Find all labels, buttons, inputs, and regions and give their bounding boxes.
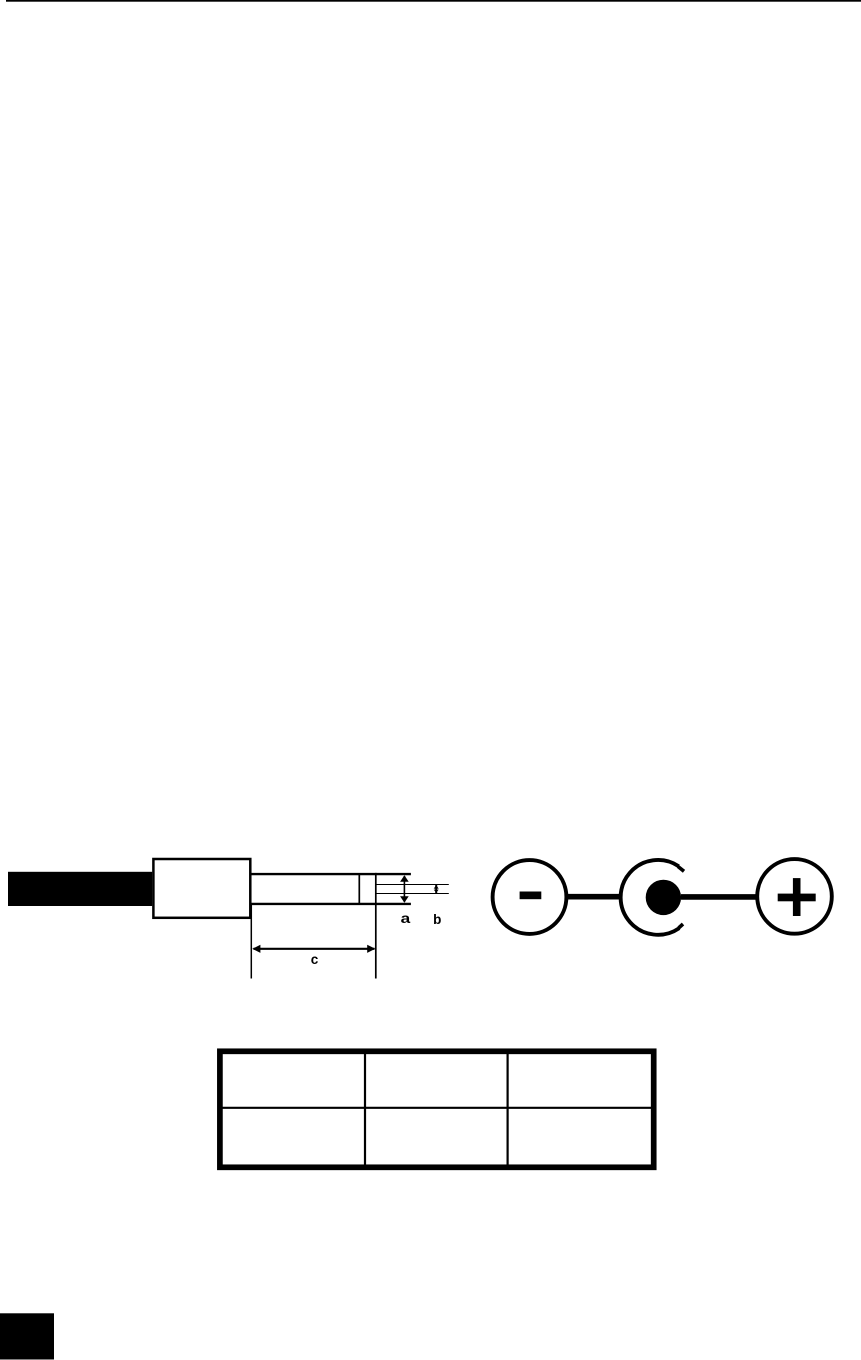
- center pin dot: [646, 880, 681, 915]
- pin line lower: [376, 893, 449, 895]
- wire jack to plus: [681, 894, 756, 900]
- C-ring bottom hook: [679, 924, 683, 928]
- svg-text:c: c: [311, 952, 319, 967]
- cable: [8, 872, 152, 906]
- minus bar: [520, 892, 542, 900]
- plus circle: [757, 859, 832, 934]
- pin line upper: [376, 884, 449, 886]
- C-ring top hook: [678, 867, 684, 872]
- table outer border: [220, 1051, 654, 1167]
- minus circle: [493, 860, 567, 934]
- barrel bottom line: [252, 903, 411, 905]
- left extension line: [250, 903, 252, 979]
- jack C-ring: [621, 860, 680, 935]
- plug body: [153, 859, 250, 918]
- page tab square: [0, 1313, 54, 1359]
- svg-text:b: b: [433, 912, 441, 927]
- plus sign vertical: [793, 878, 801, 916]
- header rule: [6, 0, 861, 2]
- table inner horizontal: [220, 1107, 654, 1109]
- barrel end / right extension line: [375, 873, 377, 979]
- svg-text:a: a: [401, 911, 411, 926]
- table inner vertical 1: [364, 1051, 366, 1167]
- dimension arrow c: [252, 945, 375, 953]
- wire minus to jack: [566, 894, 622, 900]
- tip separator: [358, 874, 360, 904]
- dimension arrow b: [434, 885, 439, 893]
- barrel top line: [252, 873, 411, 875]
- table inner vertical 2: [507, 1051, 509, 1167]
- dimension arrow a: [400, 875, 409, 903]
- plus sign horizontal: [778, 894, 816, 902]
